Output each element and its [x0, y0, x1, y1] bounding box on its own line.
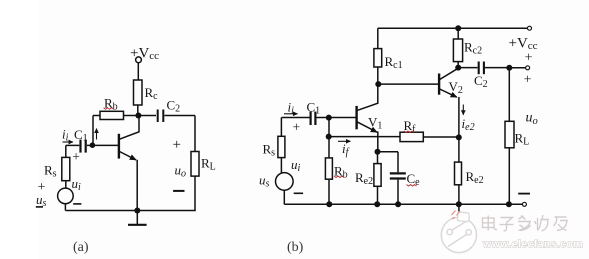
source branch wire (a): [65, 145, 67, 157]
capacitor C2 (a): [158, 110, 164, 123]
wire C2 to RL branch (a): [165, 116, 196, 152]
collector node V1 dot (b): [375, 81, 381, 87]
watermark link left: [448, 222, 467, 247]
watermark dot right: [466, 230, 471, 235]
resistor RL (a): [191, 152, 199, 177]
resistor Rc2: [453, 28, 462, 67]
wire source to rail (a): [64, 204, 66, 211]
ground (a): [128, 211, 147, 225]
output terminal plus (b): [526, 66, 530, 70]
emitter node dot V1 (b): [375, 149, 381, 155]
svg-text:(a): (a): [73, 240, 89, 255]
node A collector junction (a): [135, 113, 141, 119]
rail dot at Ce (b): [395, 201, 401, 207]
watermark chinese text 电子发烧友: [483, 215, 568, 231]
source branch (b): [280, 118, 282, 137]
wire to output terminal (b): [509, 67, 525, 69]
squiggle Ce: [407, 185, 417, 187]
output terminal bottom (b): [522, 202, 526, 206]
watermark dot left: [447, 229, 452, 234]
resistor Rs (b): [278, 136, 285, 157]
capacitor C2 (b): [458, 62, 509, 75]
wire source to rail (b): [283, 190, 285, 204]
wire Rc1 to collector node (b): [377, 67, 379, 84]
bottom rail (b): [284, 203, 522, 205]
base node dot (a): [90, 142, 96, 148]
resistor Rc: [134, 80, 143, 105]
svg-text:+: +: [293, 119, 301, 134]
wire RL to rail (b): [508, 148, 510, 205]
capacitor Ce: [390, 173, 406, 178]
power terminal +Vcc (a): [136, 57, 142, 80]
wire Rs to source (b): [280, 158, 282, 173]
label minus source (b): [294, 192, 303, 194]
resistor Rb: [93, 111, 136, 145]
base column (b): [328, 118, 330, 158]
emitter current arrow ie2: [462, 105, 464, 115]
squiggle Rb (a): [104, 108, 114, 110]
red artifact below rail: [452, 211, 461, 219]
Vcc terminal (b): [528, 26, 532, 30]
svg-text:+: +: [525, 51, 533, 66]
svg-text:(b): (b): [287, 240, 304, 255]
svg-text:www.elecfans.com: www.elecfans.com: [482, 239, 583, 251]
resistor Rb (b): [325, 158, 332, 179]
feedback current arrow (a): [96, 129, 98, 140]
wire Rf to emitter column V2: [423, 136, 459, 138]
wire Ce to rail: [397, 180, 399, 205]
wire Rc to node A: [137, 105, 139, 116]
wire rail to Rc1 (b): [377, 28, 379, 48]
rail dot at RL (b): [506, 201, 512, 207]
label minus source right (a): [73, 203, 81, 205]
bottom rail (a): [65, 210, 195, 212]
resistor Rc1: [374, 49, 382, 67]
svg-text:+: +: [173, 137, 181, 153]
resistor Re1 (left, labelled Re2): [374, 152, 381, 205]
label minus output (a): [173, 190, 184, 192]
rail dot at Re1 (b): [374, 201, 380, 207]
watermark flag: [458, 212, 470, 222]
output node dot (b): [506, 65, 512, 71]
feedback wire to Rf: [329, 136, 400, 138]
transistor V2 (b): [439, 68, 459, 204]
resistor Rf: [400, 132, 423, 141]
input current arrow i_i (a): [63, 141, 74, 143]
emitter junction dot (a): [134, 208, 140, 214]
svg-text:+: +: [72, 149, 80, 164]
resistor Re2 (right): [455, 162, 462, 185]
resistor RL (b): [505, 121, 514, 148]
wire node to V2 base: [378, 83, 439, 85]
capacitor C1 (a): [81, 140, 86, 153]
feedback current arrow i_f: [338, 140, 351, 142]
input wire (b): [281, 117, 328, 119]
node on base column (b): [326, 134, 332, 140]
stub below rail at Re2: [458, 204, 460, 211]
watermark logo circle: [441, 217, 476, 252]
transistor V1 of (a): [93, 116, 139, 211]
voltage source us (a): [58, 188, 74, 204]
input current arrow i_i (b): [284, 113, 298, 115]
load branch (b): [508, 68, 510, 122]
collector node V2 dot: [455, 65, 461, 71]
svg-text:+: +: [524, 73, 532, 88]
junction dot Rf emitter (b): [456, 134, 462, 140]
label minus us (a): [36, 206, 43, 208]
rail junction dot at Rc2 (b): [455, 25, 461, 31]
label minus output (b): [518, 193, 530, 195]
wire Rb to rail (b): [328, 179, 330, 204]
top rail (b): [378, 27, 528, 29]
resistor Rs (a): [62, 157, 70, 180]
wire C2 left (a): [140, 115, 156, 117]
input wire (a): [66, 144, 93, 146]
wire emitter to Ce: [378, 152, 399, 173]
wire RL to bottom rail (a): [194, 176, 196, 210]
transistor V1 (b): [329, 84, 378, 152]
rail dot at Rb (b): [326, 201, 332, 207]
rail dot at Re2 (b): [456, 201, 462, 207]
wire Rs to source (a): [65, 181, 67, 189]
base node dot (b): [326, 115, 332, 121]
capacitor C1 (b): [311, 112, 316, 125]
squiggle Rf: [404, 131, 414, 133]
squiggle Rb (b): [334, 176, 344, 178]
voltage source us (b): [276, 173, 294, 191]
